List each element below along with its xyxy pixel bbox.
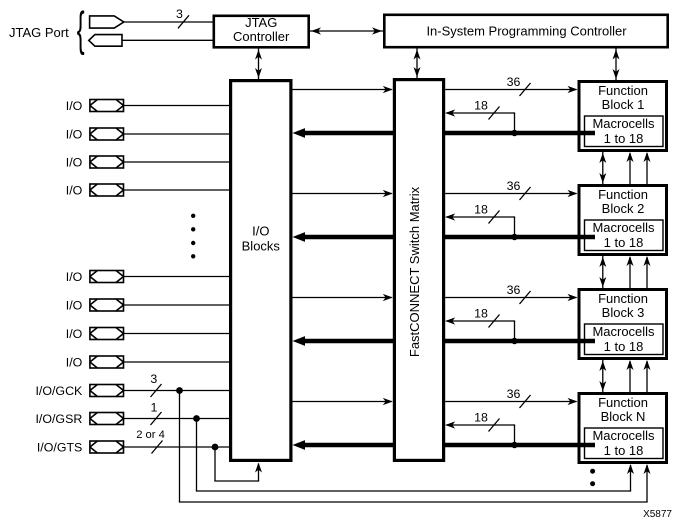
- slash bus width 36 row 1: [520, 83, 531, 96]
- svg-text:I/O: I/O: [66, 356, 83, 370]
- wire Function Block 1-2 (bidirectional): [602, 152, 604, 184]
- slash bus width 1 (GSR): [151, 412, 162, 425]
- svg-text:{: {: [77, 2, 85, 55]
- Macrocells box of Function Block 2: [585, 220, 664, 251]
- svg-text:Block 3: Block 3: [602, 305, 645, 320]
- wire GCK loop to Function Block N: [179, 391, 181, 503]
- JTAG Controller box U1: [214, 16, 309, 48]
- slash bus width 3 (JTAG): [178, 15, 189, 28]
- svg-text:18: 18: [474, 307, 488, 321]
- svg-text:I/O/GSR: I/O/GSR: [35, 412, 82, 426]
- svg-text:36: 36: [507, 179, 521, 193]
- svg-text:Block 2: Block 2: [602, 201, 645, 216]
- junction feedback row 3: [511, 338, 517, 344]
- pin I/O row 8: [90, 356, 124, 368]
- pin TDO (JTAG output pin symbol): [89, 35, 122, 47]
- wire up-arrow a between Function Block N and 3: [629, 361, 631, 392]
- svg-text:I/O: I/O: [66, 156, 83, 170]
- dots Function Block continuation: [590, 469, 595, 474]
- svg-text:I/O: I/O: [66, 184, 83, 198]
- svg-text:36: 36: [507, 283, 521, 297]
- slash bus width 18 row 4: [489, 419, 500, 432]
- wire 18-bit into FastCONNECT row 3: [446, 320, 515, 322]
- svg-text:2 or 4: 2 or 4: [136, 429, 165, 441]
- junction GTS: [212, 444, 219, 451]
- wire 18-bit feedback bus row 2 (thick): [304, 235, 580, 240]
- junction feedback row 2: [511, 234, 517, 240]
- pin TDI/TMS/TCK (JTAG input pin symbol): [90, 16, 124, 28]
- slash bus width 18 row 1: [489, 107, 500, 120]
- slash bus width 36 row 4: [520, 395, 531, 408]
- svg-text:I/O: I/O: [66, 99, 83, 113]
- wire JTAG Controller to ISP Controller (bidirectional): [310, 30, 383, 32]
- svg-text:Macrocells: Macrocells: [592, 220, 655, 235]
- junction GCK: [176, 387, 183, 394]
- svg-text:18: 18: [474, 203, 488, 217]
- svg-text:In-System Programming Controll: In-System Programming Controller: [426, 24, 627, 39]
- svg-text:Function: Function: [598, 395, 648, 410]
- wire I/O Blocks to FastCONNECT row 1: [293, 89, 392, 91]
- svg-text:Function: Function: [598, 291, 648, 306]
- wire Function Block 2-3 (bidirectional): [602, 256, 604, 288]
- wire I/O/GCK to I/O Blocks: [124, 390, 230, 392]
- wire 18-bit feedback bus row 4 (thick): [304, 443, 580, 448]
- wire TDO to JTAG Controller: [122, 39, 213, 41]
- svg-text:Macrocells: Macrocells: [592, 116, 655, 131]
- wire 18-bit feedback bus row 3 (thick): [304, 339, 580, 344]
- svg-text:I/O: I/O: [252, 223, 269, 238]
- wire 18-bit into FastCONNECT row 4: [446, 424, 515, 426]
- Function Block 2 box: [579, 186, 667, 255]
- wire I/O Blocks to FastCONNECT row 4: [293, 401, 392, 403]
- wire up-arrow b between Function Block 3 and 2: [646, 257, 648, 288]
- pin I/O/GCK: [90, 385, 124, 397]
- wire Function Block 3-N (bidirectional): [602, 360, 604, 392]
- svg-text:I/O: I/O: [66, 327, 83, 341]
- wire I/O row 1 to I/O Blocks: [124, 105, 230, 107]
- wire 36-bit FastCONNECT to Function Block 2: [445, 193, 576, 195]
- wire I/O/GSR to I/O Blocks: [124, 418, 230, 420]
- wire JTAG input to JTAG Controller: [124, 21, 213, 23]
- Macrocells box of Function Block N: [585, 428, 664, 459]
- svg-text:Macrocells: Macrocells: [592, 324, 655, 339]
- svg-text:1 to 18: 1 to 18: [604, 339, 644, 354]
- wire up-arrow a between Function Block 2 and 1: [629, 153, 631, 184]
- dots I/O continuation (left column): [191, 214, 195, 218]
- wire 18-bit bus stub inside Function Block 2: [578, 235, 596, 240]
- svg-text:18: 18: [474, 99, 488, 113]
- Function Block N box: [579, 394, 667, 463]
- I/O Blocks box: [231, 81, 291, 461]
- svg-text:FastCONNECT Switch Matrix: FastCONNECT Switch Matrix: [407, 186, 422, 357]
- svg-text:36: 36: [507, 75, 521, 89]
- wire 36-bit FastCONNECT to Function Block N: [445, 401, 576, 403]
- junction GSR: [193, 415, 200, 422]
- wire I/O row 3 to I/O Blocks: [124, 161, 230, 163]
- Macrocells box of Function Block 1: [585, 116, 664, 147]
- wire I/O/GTS to I/O Blocks: [124, 446, 230, 448]
- wire JTAG Controller to I/O Blocks (bidirectional): [258, 49, 260, 79]
- pin I/O row 2: [90, 128, 124, 140]
- svg-text:1 to 18: 1 to 18: [604, 443, 644, 458]
- wire 18-bit into FastCONNECT row 1: [446, 112, 515, 114]
- wire up-arrow b between Function Block N and 3: [646, 361, 648, 392]
- svg-text:Controller: Controller: [233, 29, 290, 44]
- wire 18-bit bus stub inside Function Block N: [578, 443, 596, 448]
- wire I/O row 2 to I/O Blocks: [124, 133, 230, 135]
- slash bus width 36 row 2: [520, 187, 531, 200]
- pin I/O row 7: [90, 328, 124, 340]
- wire I/O Blocks to FastCONNECT row 2: [293, 193, 392, 195]
- Function Block 1 box: [579, 82, 667, 151]
- pin I/O/GTS: [90, 441, 124, 453]
- svg-text:Block 1: Block 1: [602, 97, 645, 112]
- junction feedback row 1: [511, 130, 517, 136]
- svg-text:1 to 18: 1 to 18: [604, 235, 644, 250]
- slash bus width 3 (GCK): [151, 384, 162, 397]
- svg-text:JTAG Port: JTAG Port: [9, 25, 69, 40]
- svg-text:I/O: I/O: [66, 270, 83, 284]
- svg-text:I/O: I/O: [66, 299, 83, 313]
- svg-text:3: 3: [176, 7, 183, 21]
- wire I/O row 8 to I/O Blocks: [124, 361, 230, 363]
- wire 18-bit bus stub inside Function Block 3: [578, 339, 596, 344]
- wire 18-bit bus stub inside Function Block 1: [578, 131, 596, 136]
- wire I/O Blocks to FastCONNECT row 3: [293, 297, 392, 299]
- wire ISP Controller to FastCONNECT (bidirectional): [416, 49, 418, 79]
- svg-text:Function: Function: [598, 83, 648, 98]
- pin I/O row 3: [90, 156, 124, 168]
- wire 18-bit feedback bus row 1 (thick): [304, 131, 580, 136]
- wire I/O row 7 to I/O Blocks: [124, 333, 230, 335]
- svg-text:36: 36: [507, 387, 521, 401]
- pin I/O row 5: [90, 271, 124, 283]
- Macrocells box of Function Block 3: [585, 324, 664, 355]
- wire GSR loop to Function Block N: [196, 419, 198, 492]
- wire ISP Controller to Function Block 1 (bidirectional): [615, 49, 617, 81]
- svg-text:Function: Function: [598, 187, 648, 202]
- In-System Programming Controller box U2: [384, 15, 667, 47]
- svg-text:I/O: I/O: [66, 128, 83, 142]
- wire 36-bit FastCONNECT to Function Block 3: [445, 297, 576, 299]
- svg-text:I/O/GTS: I/O/GTS: [37, 441, 82, 455]
- svg-text:18: 18: [474, 411, 488, 425]
- svg-text:1 to 18: 1 to 18: [604, 131, 644, 146]
- wire up-arrow a between Function Block 3 and 2: [629, 257, 631, 288]
- slash bus width 18 row 2: [489, 211, 500, 224]
- slash bus width 2 or 4 (GTS): [152, 441, 163, 454]
- pin I/O/GSR: [90, 413, 124, 425]
- svg-text:Blocks: Blocks: [242, 239, 281, 254]
- wire I/O row 4 to I/O Blocks: [124, 189, 230, 191]
- svg-text:3: 3: [150, 372, 157, 386]
- wire I/O row 5 to I/O Blocks: [124, 276, 230, 278]
- svg-text:Block N: Block N: [601, 409, 646, 424]
- wire GTS loop to I/O Blocks bottom: [214, 447, 216, 481]
- svg-text:X5877: X5877: [643, 509, 672, 520]
- svg-text:I/O/GCK: I/O/GCK: [35, 384, 83, 398]
- Function Block 3 box: [579, 290, 667, 359]
- junction feedback row 4: [511, 442, 517, 448]
- wire 36-bit FastCONNECT to Function Block 1: [445, 89, 576, 91]
- wire up-arrow b between Function Block 2 and 1: [646, 153, 648, 184]
- pin I/O row 1: [90, 100, 124, 112]
- slash bus width 36 row 3: [520, 291, 531, 304]
- svg-text:Macrocells: Macrocells: [592, 428, 655, 443]
- wire I/O row 6 to I/O Blocks: [124, 304, 230, 306]
- slash bus width 18 row 3: [489, 315, 500, 328]
- wire 18-bit into FastCONNECT row 2: [446, 216, 515, 218]
- pin I/O row 4: [90, 184, 124, 196]
- svg-text:1: 1: [151, 401, 158, 415]
- pin I/O row 6: [90, 299, 124, 311]
- FastCONNECT Switch Matrix box: [394, 80, 443, 461]
